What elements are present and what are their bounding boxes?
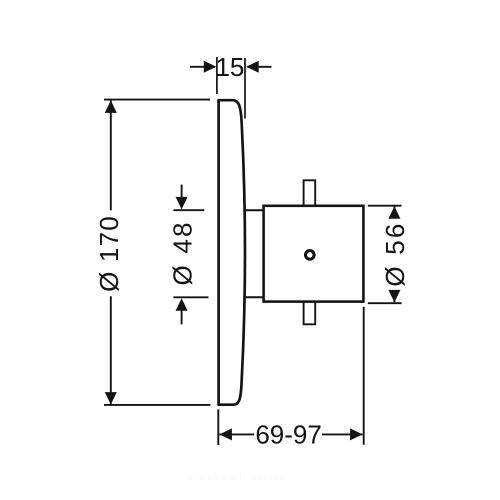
dim 69-97: dimension line right segment xyxy=(322,433,363,435)
dim 170: top extension line xyxy=(104,99,210,101)
svg-text:69-97: 69-97 xyxy=(255,420,322,450)
bottom tab xyxy=(304,302,316,325)
dim 15: right leader line xyxy=(247,66,271,68)
sleeve top line xyxy=(244,209,265,211)
dim 69-97: left arrow xyxy=(219,428,232,440)
dim 170: bottom extension line xyxy=(104,404,210,406)
dim 15: left leader line xyxy=(190,66,215,68)
svg-text:15: 15 xyxy=(215,52,244,82)
svg-text:Ø 48: Ø 48 xyxy=(168,220,198,285)
dim 48: bottom tick line xyxy=(173,296,208,298)
dim 69-97: right extension line xyxy=(363,307,365,445)
dim 69-97: right arrow xyxy=(350,428,363,440)
svg-text:ein Bad mit System: ein Bad mit System xyxy=(188,473,289,482)
escutcheon plate (side view) xyxy=(219,100,245,405)
cartridge body xyxy=(264,206,364,302)
dim 56: bottom extension line xyxy=(368,302,402,304)
dim 15: right arrow xyxy=(246,61,259,73)
dim 56: top arrow (points up) xyxy=(388,206,400,219)
center dot xyxy=(306,251,315,260)
dim 48: upper leader xyxy=(181,185,183,199)
dim 170: dimension line upper segment xyxy=(110,100,112,210)
svg-text:Ø 56: Ø 56 xyxy=(380,221,410,286)
dim 56: top extension line xyxy=(368,205,402,207)
dim 15: left arrow xyxy=(204,61,217,73)
dim 48: lower arrow (points up) xyxy=(176,298,188,311)
dim 48: top tick line xyxy=(173,209,204,211)
dim 69-97: left extension line xyxy=(217,409,219,445)
dim 56: dimension line upper segment xyxy=(393,206,395,217)
dim 170: top arrow xyxy=(105,100,117,113)
top tab xyxy=(304,180,316,206)
svg-text:Ø 170: Ø 170 xyxy=(94,215,124,292)
dim 56: bottom arrow (points down) xyxy=(388,290,400,303)
dim 69-97: dimension line left segment xyxy=(219,433,254,435)
dim 15: left extension line xyxy=(216,57,218,94)
dim 15: right extension line xyxy=(244,58,246,119)
dim 56: dimension line lower segment xyxy=(393,291,395,303)
dim 170: dimension line lower segment xyxy=(110,296,112,404)
dim 48: lower leader xyxy=(181,309,183,324)
dim 48: upper arrow (points down) xyxy=(176,197,188,210)
sleeve bottom line xyxy=(244,296,265,298)
dim 170: bottom arrow xyxy=(105,392,117,405)
